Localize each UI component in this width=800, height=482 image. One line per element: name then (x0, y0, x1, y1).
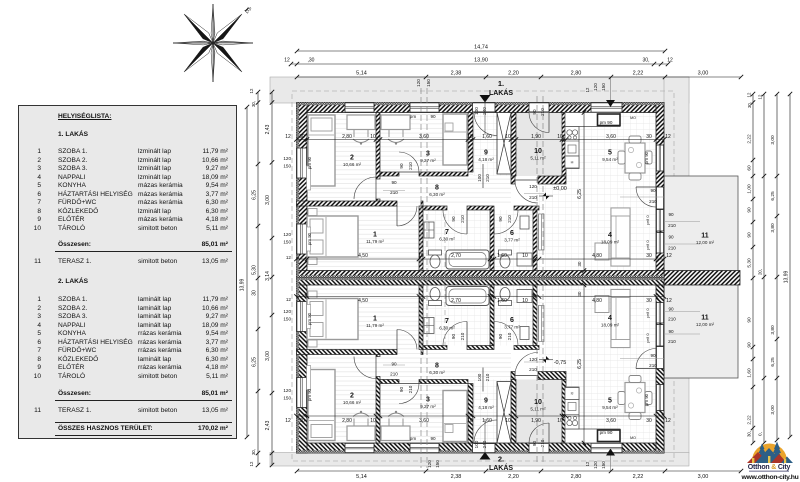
dim tick (374, 137, 378, 141)
svg-text:12: 12 (284, 58, 290, 64)
unit 2 entry arrow (480, 452, 491, 460)
right dim line 2 (763, 94, 765, 443)
door arc terrace door (636, 187, 656, 207)
svg-text:210: 210 (529, 195, 537, 200)
wall between 9 and 10 (511, 113, 516, 177)
svg-text:6,30 m²: 6,30 m² (429, 192, 445, 197)
insulation band top (297, 103, 665, 106)
svg-text:prő 0: prő 0 (645, 308, 650, 318)
kitchen appliance column (565, 127, 579, 169)
room 2 bed (308, 115, 335, 186)
section line pair B (536, 96, 538, 462)
svg-text:90: 90 (391, 361, 397, 366)
svg-text:2: 2 (350, 393, 354, 400)
corridor door dim line (383, 190, 405, 192)
svg-text:100: 100 (477, 174, 482, 182)
dim tick (492, 257, 496, 261)
room 1 bed (307, 216, 358, 257)
svg-text:pm 90: pm 90 (307, 312, 312, 325)
svg-text:10: 10 (467, 418, 473, 424)
rooms 7-6 north wall b (467, 206, 494, 210)
svg-text:30,: 30, (251, 101, 256, 107)
dim tick (662, 257, 666, 261)
kitchen door dim line (524, 193, 544, 195)
svg-text:210: 210 (668, 246, 676, 251)
floor base (307, 113, 656, 279)
bath 7 washbasin (424, 222, 434, 238)
sideboard on wall 6-4 (539, 214, 545, 250)
svg-text:3,00: 3,00 (265, 195, 271, 205)
svg-text:2,20: 2,20 (508, 71, 519, 77)
svg-text:2,43: 2,43 (265, 124, 271, 134)
svg-text:0,: 0, (758, 432, 763, 436)
svg-text:LAKÁS: LAKÁS (489, 88, 513, 97)
svg-text:90: 90 (399, 387, 404, 393)
svg-text:12: 12 (285, 418, 291, 424)
terrace door (right wall) (656, 187, 664, 209)
svg-text:10: 10 (505, 418, 511, 424)
svg-text:10: 10 (534, 399, 542, 406)
svg-text:1.: 1. (498, 79, 504, 88)
dim tick (564, 137, 568, 141)
window sill room2 (307, 166, 311, 190)
svg-text:12: 12 (249, 461, 254, 466)
svg-text:12: 12 (666, 298, 672, 304)
svg-text:210: 210 (460, 215, 465, 223)
room 3 bed (443, 114, 467, 165)
svg-text:90: 90 (650, 188, 656, 193)
svg-text:150: 150 (283, 396, 291, 401)
roof eaves band right upper (664, 77, 689, 176)
svg-text:12: 12 (285, 134, 291, 140)
axis line bath (444, 206, 446, 350)
svg-text:210: 210 (485, 174, 490, 182)
window kitchen (top wall) (591, 103, 622, 113)
svg-text:3: 3 (426, 397, 430, 404)
svg-text:2,80: 2,80 (571, 71, 582, 77)
room 1 nightstands (308, 209, 317, 216)
outer wall right (656, 103, 664, 278)
room 6 sink (520, 216, 529, 229)
svg-text:12: 12 (665, 134, 671, 140)
svg-text:30: 30 (577, 291, 582, 296)
roof eaves band right lower (664, 378, 689, 453)
svg-text:5,11 m²: 5,11 m² (530, 156, 546, 161)
svg-text:14,74: 14,74 (474, 45, 488, 51)
svg-text:7: 7 (445, 318, 449, 325)
room 3 desk (381, 115, 410, 130)
svg-text:6: 6 (510, 317, 514, 324)
svg-text:210: 210 (408, 162, 413, 170)
svg-text:12: 12 (286, 297, 292, 302)
svg-text:120: 120 (593, 461, 598, 469)
window living 2 (right wall) (656, 233, 664, 254)
kitchen counter north (565, 113, 620, 127)
interior dim line lower (297, 258, 665, 260)
svg-text:30,: 30, (643, 58, 650, 64)
svg-text:4,50: 4,50 (358, 253, 368, 259)
svg-text:210: 210 (390, 372, 398, 377)
svg-text:210: 210 (668, 339, 676, 344)
svg-text:prő 0: prő 0 (645, 215, 650, 225)
unit 2 labels (285, 291, 714, 448)
svg-text:6,25: 6,25 (770, 357, 776, 367)
svg-text:4,80: 4,80 (592, 298, 602, 304)
svg-text:4,18 m²: 4,18 m² (478, 405, 494, 410)
dim tick (654, 137, 658, 141)
dim tick (466, 137, 470, 141)
svg-text:210: 210 (540, 439, 545, 447)
bath 7 bathtub (446, 250, 489, 269)
svg-text:1,60: 1,60 (497, 298, 507, 304)
svg-text:12,00 m²: 12,00 m² (696, 240, 715, 245)
svg-text:240: 240 (482, 107, 487, 115)
door to storage 10 (top wall) (529, 103, 549, 113)
svg-text:6,25: 6,25 (577, 359, 583, 369)
svg-text:90: 90 (451, 334, 456, 340)
wall between 10 and kitchen 5 (562, 113, 566, 177)
roof outline dashed (292, 91, 674, 461)
svg-text:2,80: 2,80 (342, 418, 352, 424)
svg-text:9: 9 (484, 398, 488, 405)
svg-text:90: 90 (747, 342, 753, 348)
svg-text:pm: pm (410, 436, 417, 441)
svg-text:11,79 m²: 11,79 m² (366, 323, 384, 328)
svg-text:30,: 30, (251, 449, 256, 455)
svg-text:9,27 m²: 9,27 m² (420, 158, 436, 163)
svg-text:210: 210 (485, 373, 490, 381)
svg-text:150: 150 (601, 461, 606, 469)
dim tick (560, 137, 564, 141)
svg-text:12: 12 (249, 88, 254, 93)
door arc corridor into room 2 (354, 177, 376, 199)
compass rose (173, 4, 253, 82)
room 10 south wall west part (511, 176, 515, 184)
rooms 7-6 north wall a (423, 206, 447, 210)
roof eaves band bottom (270, 453, 689, 467)
door arc kitchen-corridor (515, 180, 538, 203)
svg-text:150: 150 (283, 164, 291, 169)
party wall half (297, 271, 665, 278)
svg-text:pm 90: pm 90 (307, 388, 312, 401)
terrace slab (11) (664, 176, 738, 378)
section line pair A (420, 88, 422, 468)
svg-text:3,60: 3,60 (606, 418, 616, 424)
svg-text:,30: ,30 (308, 58, 315, 64)
svg-text:120: 120 (529, 357, 537, 362)
tile floor entry 9 (473, 113, 511, 177)
dim tick (421, 257, 425, 261)
svg-text:210: 210 (507, 332, 512, 340)
svg-text:120: 120 (593, 83, 598, 91)
svg-text:pm 90: pm 90 (307, 232, 312, 245)
svg-text:210: 210 (529, 367, 537, 372)
door arc into storage 10 (529, 113, 549, 133)
storage room 10 gray floor (516, 113, 562, 177)
dim tick (537, 257, 541, 261)
svg-text:90: 90 (399, 163, 404, 169)
top dim segments (297, 76, 741, 78)
insulation band left (297, 103, 300, 278)
door arc entry into 9 (474, 113, 497, 136)
dim tick (294, 257, 298, 261)
svg-text:5,30: 5,30 (252, 265, 258, 275)
window kitchen (right wall) (656, 145, 664, 171)
svg-text:±0,00: ±0,00 (553, 186, 567, 192)
dim tick (294, 137, 298, 141)
svg-text:18,09 m²: 18,09 m² (601, 240, 620, 245)
window ext line living 2 (664, 243, 700, 245)
right dim line 3 (776, 94, 778, 440)
svg-text:210: 210 (460, 332, 465, 340)
svg-text:2,38: 2,38 (451, 71, 462, 77)
svg-text:1,60: 1,60 (747, 368, 753, 378)
svg-text:prő 0: prő 0 (645, 240, 650, 250)
svg-text:LAKÁS: LAKÁS (489, 463, 513, 472)
svg-text:8: 8 (435, 363, 439, 370)
svg-text:3,60: 3,60 (419, 134, 429, 140)
svg-text:90: 90 (747, 317, 753, 323)
svg-text:4,18 m²: 4,18 m² (478, 157, 494, 162)
svg-text:5: 5 (608, 398, 612, 405)
window room 1 (left wall) (297, 224, 308, 254)
svg-text:3,00: 3,00 (265, 351, 271, 361)
room 1 north wall east stub (421, 201, 423, 206)
svg-text:2,22: 2,22 (633, 474, 644, 480)
svg-text:4,50: 4,50 (358, 298, 368, 304)
svg-text:12,00 m²: 12,00 m² (696, 322, 715, 327)
svg-text:3,60: 3,60 (606, 134, 616, 140)
svg-text:11: 11 (701, 233, 709, 240)
svg-text:1: 1 (373, 316, 377, 323)
svg-text:30: 30 (577, 261, 582, 266)
svg-text:5,30: 5,30 (747, 258, 753, 268)
svg-text:210: 210 (649, 199, 657, 204)
door arc into room 1 (397, 206, 417, 226)
svg-text:90: 90 (668, 212, 674, 217)
top dim line 13,90 (291, 63, 668, 65)
svg-text:18,09 m²: 18,09 m² (601, 323, 620, 328)
room 6 toilet (499, 250, 512, 255)
svg-text:9,54 m²: 9,54 m² (602, 405, 618, 410)
svg-text:2,70: 2,70 (451, 253, 461, 259)
svg-text:10,66 m²: 10,66 m² (343, 400, 362, 405)
svg-text:≌: ≌ (570, 160, 573, 165)
svg-text:1,90: 1,90 (531, 418, 541, 424)
top dim line 14,74 (297, 50, 665, 52)
svg-text:É: É (243, 5, 254, 16)
room 6 washer (517, 253, 532, 266)
facade marker arrow bottom (606, 449, 615, 456)
window room 2 (top wall) (345, 103, 374, 113)
svg-text:8: 8 (435, 185, 439, 192)
svg-text:4: 4 (608, 315, 612, 322)
svg-text:10: 10 (534, 148, 542, 155)
svg-text:12: 12 (585, 461, 590, 466)
bath 7 toilet (429, 250, 442, 255)
svg-text:www.otthon-city.hu: www.otthon-city.hu (741, 474, 799, 481)
svg-text:3,00: 3,00 (698, 71, 709, 77)
entry door unit (top wall) (473, 103, 496, 113)
svg-text:12: 12 (747, 92, 752, 97)
door arc into bath 7 (443, 210, 467, 234)
svg-text:210: 210 (668, 317, 676, 322)
terrace door dim line (620, 196, 664, 198)
window room 2 (left wall) (297, 148, 308, 178)
svg-text:150: 150 (283, 240, 291, 245)
svg-text:3,80: 3,80 (770, 223, 776, 233)
svg-text:1,00: 1,00 (747, 184, 753, 194)
svg-text:12: 12 (585, 87, 590, 92)
svg-text:120: 120 (427, 460, 432, 468)
room 1 north wall (297, 201, 398, 206)
svg-text:7: 7 (445, 229, 449, 236)
svg-text:11: 11 (701, 315, 709, 322)
svg-text:-0,75: -0,75 (554, 360, 567, 366)
svg-text:210: 210 (540, 108, 545, 116)
svg-text:13,99: 13,99 (784, 271, 790, 284)
svg-text:5,14: 5,14 (356, 474, 367, 480)
window room 3 (top wall) (410, 103, 439, 113)
level marker (543, 193, 547, 197)
svg-text:1: 1 (373, 232, 377, 239)
svg-text:150: 150 (426, 79, 431, 87)
parquet corridor 8 (380, 176, 511, 206)
svg-text:6,30 m²: 6,30 m² (429, 370, 445, 375)
window sill room1 (307, 227, 311, 251)
party wall insulation band (297, 275, 665, 277)
logo Otthon & City (741, 442, 799, 482)
svg-text:12: 12 (667, 58, 673, 64)
svg-text:240: 240 (482, 440, 487, 448)
svg-text:120: 120 (283, 309, 291, 314)
svg-text:30,: 30, (747, 102, 752, 108)
parquet floor bedrooms top row (307, 113, 473, 202)
svg-text:30: 30 (299, 134, 305, 140)
svg-text:10: 10 (505, 134, 511, 140)
svg-text:3,80: 3,80 (770, 325, 776, 335)
unit 2 mirrored geometry (294, 278, 700, 454)
svg-text:90: 90 (650, 353, 656, 358)
svg-text:150: 150 (283, 317, 291, 322)
svg-text:10: 10 (370, 418, 376, 424)
dim tick (662, 137, 666, 141)
svg-text:10,66 m²: 10,66 m² (343, 162, 362, 167)
svg-text:100: 100 (474, 440, 479, 448)
svg-text:90: 90 (668, 306, 674, 311)
svg-text:4: 4 (608, 232, 612, 239)
svg-text:2,80: 2,80 (342, 134, 352, 140)
unit 1 entry arrow (480, 95, 491, 103)
svg-text:30: 30 (646, 418, 652, 424)
svg-text:10: 10 (418, 298, 424, 304)
svg-text:3,77 m²: 3,77 m² (504, 238, 520, 243)
room 3 south wall west part (380, 172, 399, 176)
svg-text:30,: 30, (747, 431, 752, 437)
svg-text:MO: MO (630, 436, 636, 440)
room 3 south wall east part (419, 172, 468, 176)
rooms 7-6 north wall c (514, 206, 539, 210)
outer wall top (297, 103, 665, 113)
bottom dim segments (297, 470, 741, 472)
door arc corridor into room 3 (399, 152, 419, 172)
room 10 south wall east part (538, 176, 566, 184)
svg-text:pm: pm (410, 114, 417, 119)
svg-text:2,80: 2,80 (571, 474, 582, 480)
svg-text:90: 90 (498, 334, 503, 340)
room 3 east wall (468, 113, 473, 173)
svg-text:Otthon & City: Otthon & City (748, 464, 791, 471)
window ext line living 1 (664, 221, 700, 223)
svg-text:2,22: 2,22 (633, 71, 644, 77)
svg-text:210: 210 (408, 385, 413, 393)
svg-text:30: 30 (299, 418, 305, 424)
svg-text:90: 90 (451, 216, 456, 222)
living room sofa (611, 208, 630, 266)
kitchen table with chairs (625, 143, 645, 173)
wall between rooms 2 and 3 (376, 113, 380, 180)
svg-text:3,14: 3,14 (265, 271, 271, 281)
svg-text:90: 90 (430, 114, 436, 119)
svg-text:90: 90 (668, 235, 674, 240)
svg-text:2,20: 2,20 (508, 474, 519, 480)
svg-text:150: 150 (435, 460, 440, 468)
svg-text:120: 120 (283, 156, 291, 161)
svg-text:5,11 m²: 5,11 m² (530, 407, 546, 412)
svg-text:4,80: 4,80 (592, 253, 602, 259)
svg-text:3,00: 3,00 (770, 405, 776, 415)
svg-text:1,60: 1,60 (497, 253, 507, 259)
interior dim line upper (297, 139, 665, 141)
wall between 7 and 6 (490, 210, 494, 271)
window living 1 (right wall) (656, 210, 664, 232)
svg-text:13,99: 13,99 (240, 279, 246, 292)
wall west of corridor (room2 side) upper (376, 199, 380, 201)
svg-text:30: 30 (252, 290, 258, 296)
svg-text:9: 9 (484, 150, 488, 157)
svg-text:90: 90 (532, 109, 537, 115)
dim tick (533, 257, 537, 261)
living room coffee table (595, 243, 609, 260)
dim tick (509, 137, 513, 141)
svg-text:90: 90 (747, 232, 753, 238)
svg-text:90: 90 (391, 180, 397, 185)
svg-text:10: 10 (557, 134, 563, 140)
svg-text:2,43: 2,43 (265, 420, 271, 430)
opening marker 9-8 (482, 164, 484, 188)
svg-text:90: 90 (747, 207, 753, 213)
parquet floor room 1 (307, 206, 419, 271)
svg-text:5,14: 5,14 (356, 71, 367, 77)
svg-text:30: 30 (646, 134, 652, 140)
svg-text:3: 3 (426, 151, 430, 158)
svg-text:10: 10 (370, 134, 376, 140)
svg-text:2.: 2. (498, 455, 504, 464)
svg-text:210: 210 (390, 190, 398, 195)
wall between 6 and living 4 (533, 210, 537, 271)
svg-text:pm 90: pm 90 (307, 156, 312, 169)
left dim line outer (257, 92, 259, 465)
svg-text:pm 90: pm 90 (644, 393, 649, 406)
svg-text:5: 5 (608, 150, 612, 157)
svg-text:13,90: 13,90 (474, 58, 488, 64)
svg-text:1,60: 1,60 (482, 418, 492, 424)
dim tick (471, 137, 475, 141)
svg-text:10: 10 (557, 418, 563, 424)
svg-text:prő 0: prő 0 (645, 333, 650, 343)
svg-text:3,60: 3,60 (419, 418, 429, 424)
dim tick (514, 137, 518, 141)
